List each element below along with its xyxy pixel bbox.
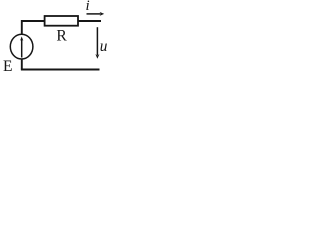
svg-text:u: u [100, 38, 108, 55]
voltage source E (circle) [10, 34, 33, 59]
source EMF arrow [20, 36, 23, 57]
wire from source top to resistor left [22, 21, 45, 35]
svg-text:i: i [86, 0, 90, 14]
svg-text:R: R [56, 27, 67, 44]
wire source bottom stub [21, 59, 23, 70]
resistor R [45, 16, 78, 26]
current arrow i [87, 12, 105, 16]
wire from resistor right to open terminal [78, 20, 101, 22]
voltage arrow u [95, 27, 99, 59]
svg-text:E: E [3, 58, 12, 75]
bottom wire [21, 69, 100, 71]
